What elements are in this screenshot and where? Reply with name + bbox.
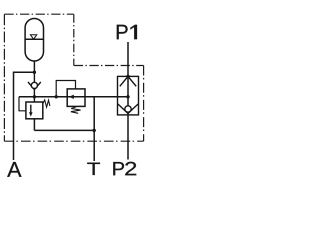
accumulator gas separator triangle <box>30 35 36 40</box>
wire: to P2 <box>127 112 129 159</box>
wire: main horizontal line <box>19 96 128 98</box>
check valve V1 (below accumulator) <box>28 72 41 89</box>
node junction at seat apex <box>126 75 129 78</box>
port label P1 <box>117 25 128 39</box>
port label P2 <box>113 162 136 175</box>
PRV2 internal flow arrow <box>69 95 74 99</box>
reducing valve PRV2 body <box>67 89 85 107</box>
check valve V2 seat (lower) <box>118 104 138 113</box>
pilot line of reducing valve PRV2 <box>56 81 75 97</box>
spring of RV1 <box>43 100 50 107</box>
node junction outlet/tank <box>93 129 96 132</box>
wire: check valve to main line <box>33 90 35 97</box>
wire: accumulator to junction <box>33 61 35 72</box>
relief valve RV1 body <box>26 102 43 119</box>
node junction accumulator/A-branch <box>33 71 36 74</box>
wire: RV1 outlet to tank line <box>34 129 94 131</box>
enclosure dash-dot boundary <box>4 14 143 141</box>
node junction main/valve line <box>33 95 36 98</box>
wire: RV1 outlet down <box>33 119 35 131</box>
pilot line of relief valve RV1 <box>19 97 26 111</box>
spring of PRV2 <box>71 107 81 113</box>
check valve V2 ball <box>125 106 131 112</box>
accumulator <box>25 19 43 62</box>
wire: entry stub into RV1 <box>33 97 35 102</box>
wire: tank line down to T <box>93 97 95 161</box>
port label T <box>87 163 100 175</box>
node junction main line inside block <box>126 95 129 98</box>
wire: branch to port A <box>14 72 35 160</box>
port label A <box>7 162 21 177</box>
check valve cartridge block <box>118 76 139 115</box>
wire: P1 line down <box>127 42 129 106</box>
node junction pilot of PRV2 <box>55 95 58 98</box>
RV1 internal flow arrow <box>30 105 32 113</box>
seat (upper) of cartridge <box>120 76 136 86</box>
